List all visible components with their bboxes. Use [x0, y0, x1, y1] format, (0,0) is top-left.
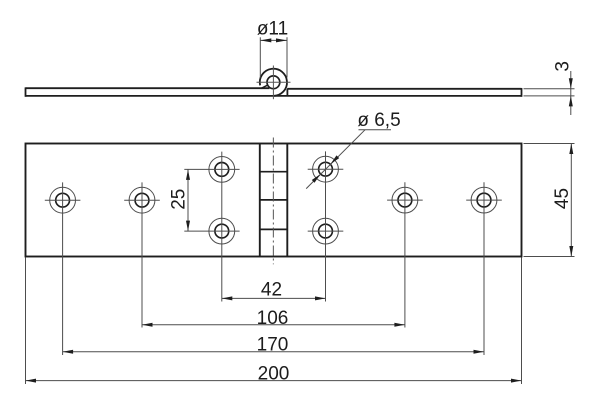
dimension 45 label [552, 188, 573, 209]
dimension o11 arrow left [260, 38, 271, 42]
hole B outer circle [129, 187, 155, 213]
hole E inner circle [319, 162, 333, 176]
svg-text:3: 3 [553, 61, 574, 72]
dimension 170 label [257, 335, 289, 356]
hole F horizontal crosshair [308, 230, 344, 232]
dimension 42 dimension line [222, 297, 326, 299]
hole A horizontal crosshair [45, 199, 81, 201]
leader o6,5 diagonal line [306, 130, 365, 189]
dimension 42 arrow right [315, 296, 326, 300]
leader o6,5 arrow lower [312, 174, 321, 183]
dimension 3 label [553, 61, 574, 72]
dimension 25 dimension line [187, 169, 189, 231]
dimension 200 dimension line [26, 380, 522, 382]
knuckle vertical centerline [272, 66, 274, 100]
hole C outer circle [209, 157, 235, 183]
side view leaf bar right top edge [287, 88, 521, 90]
knuckle pin inner circle [267, 76, 280, 89]
hole F outer circle [313, 218, 339, 244]
knuckle division line 2 [260, 199, 288, 201]
side view bar left end face [25, 87, 27, 96]
knuckle division line 1 [260, 171, 288, 173]
dimension 3 arrow bottom [569, 96, 573, 107]
dimension 170 arrow right [474, 350, 485, 354]
hole B inner circle [135, 193, 149, 207]
svg-text:ø 6,5: ø 6,5 [357, 110, 400, 131]
hole H vertical centerline extending to 170 dim [483, 182, 485, 355]
dimension 170 dimension line [63, 351, 484, 353]
hole D inner circle [215, 224, 229, 238]
dimension 45 extension line bottom [524, 256, 575, 258]
dimension o11 label [257, 19, 288, 40]
svg-text:200: 200 [258, 363, 290, 384]
hole D horizontal crosshair merged with 25 dim extension bottom [184, 230, 239, 232]
hole G inner circle [398, 193, 412, 207]
svg-text:42: 42 [261, 279, 282, 300]
hole E horizontal crosshair [308, 168, 344, 170]
hinge barrel right edge [286, 144, 288, 257]
dimension 45 dimension line [570, 144, 572, 257]
leader o6,5 label [357, 110, 400, 131]
dimension o11 extension line left [259, 37, 261, 77]
dimension 106 arrow right [394, 323, 405, 327]
dimension 3 extension line bottom [524, 95, 575, 97]
hinge barrel left edge [259, 144, 261, 257]
hole G horizontal crosshair [387, 199, 423, 201]
holes C D shared vertical centerline extending to 42 dim [221, 152, 223, 302]
dimension 25 arrow bottom [186, 221, 190, 232]
dimension 25 arrow top [186, 169, 190, 180]
hole F inner circle [319, 224, 333, 238]
side view leaf bar left top edge [26, 87, 270, 89]
leader o6,5 arrow upper [330, 155, 339, 164]
hinge pin centerline dash-dot [272, 138, 274, 265]
dimension 200 arrow right [511, 379, 522, 383]
dimension 106 label [257, 308, 289, 329]
plate right corner extension line for 200 dim [521, 258, 523, 385]
side view knuckle roll wedge [261, 85, 268, 88]
hole H outer circle [471, 187, 497, 213]
dimension 42 label [261, 279, 282, 300]
dimension 200 arrow left [26, 379, 37, 383]
svg-text:25: 25 [168, 189, 189, 210]
dimension 3 extension line top [524, 88, 575, 90]
knuckle horizontal centerline [257, 81, 291, 83]
hole B horizontal crosshair [124, 199, 160, 201]
dimension 200 label [258, 363, 290, 384]
hole G outer circle [392, 187, 418, 213]
hole H horizontal crosshair [466, 199, 502, 201]
svg-text:ø11: ø11 [257, 19, 288, 40]
dimension o11 arrow right [276, 38, 287, 42]
dimension 3 dimension line [570, 71, 572, 115]
dimension 106 arrow left [142, 323, 153, 327]
hole A outer circle [50, 187, 76, 213]
dimension 45 arrow bottom [569, 246, 573, 257]
hole D outer circle [209, 218, 235, 244]
dimension 106 dimension line [142, 324, 405, 326]
svg-text:106: 106 [257, 308, 289, 329]
hole C horizontal crosshair merged with 25 dim extension top [184, 168, 239, 170]
dimension 45 arrow top [569, 144, 573, 155]
side view bar bottom edge [26, 95, 522, 97]
dimension o11 extension line right [286, 37, 288, 77]
hole E outer circle [313, 156, 339, 182]
dimension o11 dimension line [260, 39, 287, 41]
hole A inner circle [56, 193, 70, 207]
side view right leaf end face behind knuckle [286, 89, 288, 96]
knuckle outer circle arc [260, 69, 287, 96]
hole C inner circle [215, 163, 229, 177]
svg-text:45: 45 [552, 188, 573, 209]
hole B vertical centerline extending to 106 dim [141, 182, 143, 327]
holes E F shared vertical centerline extending to 42 dim [325, 151, 327, 301]
dimension 42 arrow left [222, 296, 233, 300]
leader o6,5 horizontal underline [359, 129, 392, 131]
knuckle division line 3 [260, 228, 288, 230]
plate left corner extension line for 200 dim [25, 258, 27, 385]
dimension 3 arrow top [569, 78, 573, 89]
dimension 45 extension line top [524, 143, 575, 145]
plate outline front view [26, 144, 522, 257]
dimension 25 label [168, 189, 189, 210]
hole G vertical centerline extending to 106 dim [404, 182, 406, 327]
dimension 170 arrow left [63, 350, 74, 354]
hole A vertical centerline extending to 170 dim [62, 182, 64, 355]
side view bar right end face [521, 88, 523, 97]
hole H inner circle [477, 193, 491, 207]
svg-text:170: 170 [257, 335, 289, 356]
